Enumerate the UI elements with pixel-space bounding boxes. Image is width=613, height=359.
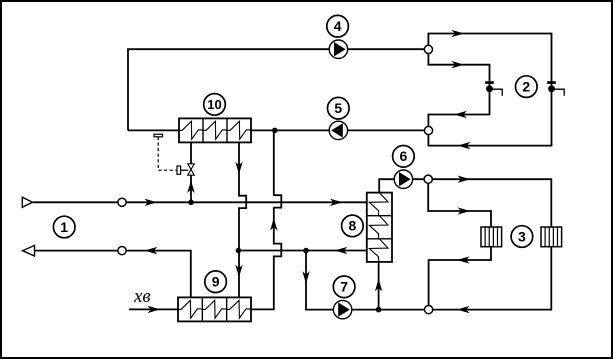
svg-text:10: 10	[207, 97, 221, 112]
svg-text:4: 4	[334, 18, 342, 34]
svg-text:6: 6	[400, 148, 408, 164]
svg-text:7: 7	[340, 279, 348, 295]
svg-text:3: 3	[518, 228, 526, 244]
svg-text:8: 8	[349, 218, 357, 234]
svg-text:2: 2	[522, 78, 530, 94]
svg-text:хв: хв	[133, 286, 151, 307]
svg-text:9: 9	[212, 274, 220, 290]
svg-text:5: 5	[334, 100, 342, 116]
svg-text:1: 1	[60, 219, 68, 235]
